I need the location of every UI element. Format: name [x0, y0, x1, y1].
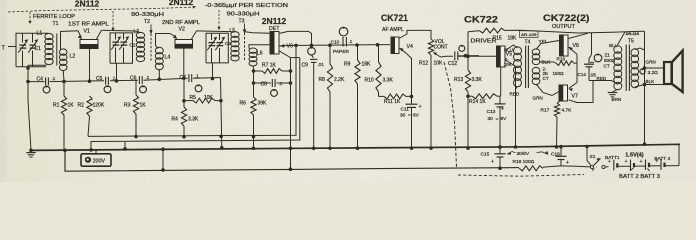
resistor R18: [513, 159, 544, 171]
wire V7 collector: [569, 81, 594, 103]
capacitor C3 trimmer b: [215, 33, 225, 63]
inductor L2: [59, 49, 75, 71]
transformer T4 core: [526, 46, 529, 89]
svg-text:BRN: BRN: [612, 97, 622, 102]
svg-text:BLK: BLK: [646, 79, 656, 84]
svg-text:+: +: [419, 104, 422, 110]
svg-text:R4: R4: [172, 117, 179, 123]
label CK722: [464, 15, 498, 25]
wire R5 right drop: [215, 78, 224, 150]
label 1.5V(4): [625, 153, 643, 159]
capacitor C14: [578, 55, 597, 81]
svg-text:4.7K: 4.7K: [562, 108, 573, 114]
svg-text:FERRITE LOOP: FERRITE LOOP: [33, 14, 75, 20]
svg-text:.05: .05: [590, 72, 597, 77]
wire L1 bottom to C4 line: [26, 65, 46, 84]
svg-text:1K: 1K: [68, 103, 75, 109]
svg-text:.1: .1: [146, 75, 150, 80]
resistor R2: [78, 96, 105, 136]
capacitor C16: [543, 145, 569, 167]
svg-text:90-330μH: 90-330μH: [131, 12, 164, 18]
svg-text:C4: C4: [37, 77, 44, 83]
label AR-109 T4: [520, 31, 539, 46]
wire T2 sec bottom: [158, 69, 162, 81]
wire V7 base: [568, 63, 577, 91]
label DRIVER: [471, 39, 498, 45]
resistor R6: [240, 97, 268, 150]
label 2N112 V2: [169, 0, 194, 7]
mechanical link dashed: [444, 62, 597, 176]
transistor V7: [559, 85, 568, 101]
wire V3 emitter top: [279, 31, 312, 45]
transformer T5 primary: [614, 46, 622, 90]
wire output top rail: [505, 30, 645, 33]
wire C16 to switch: [561, 166, 590, 167]
svg-text:R5: R5: [190, 95, 197, 101]
svg-text:90-330μH: 90-330μH: [227, 12, 260, 18]
svg-text:L3: L3: [134, 29, 140, 35]
transformer T2 core: [149, 25, 152, 63]
wire V6 base: [568, 47, 577, 64]
svg-text:+: +: [625, 159, 628, 165]
svg-text:GRN: GRN: [533, 96, 543, 101]
wire V5 collector: [505, 45, 518, 51]
label YEL: [539, 39, 548, 45]
svg-text:V3: V3: [287, 43, 293, 49]
wire V2 collector to T3: [197, 31, 236, 32]
svg-text:R11 1K: R11 1K: [384, 99, 401, 105]
wire x163 drop: [161, 147, 165, 171]
svg-text:V6: V6: [573, 43, 579, 49]
wire detector audio line: [289, 43, 391, 47]
svg-text:V2: V2: [179, 27, 185, 33]
node C5 test point: [104, 85, 111, 92]
label VOL CONT: [434, 39, 448, 50]
label V3: [287, 43, 293, 49]
svg-text:+: +: [640, 159, 643, 165]
label OUTPUT: [552, 24, 575, 30]
label 2N112 V3: [262, 17, 287, 26]
capacitor C5: [96, 76, 116, 85]
wire V5 to T4 bottom: [505, 60, 517, 149]
svg-text:3.3K: 3.3K: [383, 77, 394, 83]
label 2ND RF AMPL: [162, 20, 200, 26]
svg-text:30: 30: [488, 116, 494, 122]
transformer T1 core: [56, 34, 58, 66]
label 90-330uH T3: [227, 12, 260, 18]
wire V1 collector to T2: [102, 30, 141, 33]
capacitor C2 trimmer a: [111, 33, 121, 83]
battery BATT4 cell: [655, 159, 664, 170]
wire left vertical: [28, 65, 31, 150]
inductor L3: [134, 29, 145, 62]
label DET: [269, 26, 280, 32]
label tuning gang leader: [8, 3, 289, 12]
wire main bus: [31, 144, 680, 150]
svg-text:-0·365μμf PER SECTION: -0·365μμf PER SECTION: [205, 3, 289, 9]
resistor R16: [553, 57, 578, 76]
svg-text:T2: T2: [144, 19, 150, 25]
wire RED primary bottom: [589, 81, 618, 85]
svg-text:10K: 10K: [434, 61, 444, 67]
svg-text:.1: .1: [349, 39, 353, 44]
capacitor C8: [254, 79, 293, 87]
resistor R13: [454, 32, 482, 150]
wire gang arrow C2: [111, 11, 114, 31]
svg-text:R7 1K: R7 1K: [262, 63, 277, 69]
svg-text:R10: R10: [365, 77, 374, 83]
svg-text:CT: CT: [543, 76, 549, 81]
svg-text:AR-119: AR-119: [626, 32, 640, 36]
resistor R3: [124, 80, 146, 138]
label T3: [239, 18, 245, 24]
wire V3 base arrow: [279, 44, 289, 48]
label T2: [144, 19, 150, 25]
svg-text:C10: C10: [331, 39, 340, 45]
capacitor C12: [448, 45, 479, 67]
label CK722(2): [543, 13, 590, 23]
resistor R7: [254, 63, 293, 74]
wire R11 line: [379, 95, 412, 97]
wire battery links: [617, 144, 679, 171]
resistor R1: [53, 81, 74, 149]
svg-text:C11: C11: [401, 106, 410, 112]
svg-text:R2: R2: [78, 103, 85, 109]
label V1: [84, 29, 90, 35]
svg-text:T5: T5: [628, 38, 634, 44]
svg-text:C5: C5: [96, 76, 103, 82]
svg-text:AR-109: AR-109: [521, 33, 537, 37]
svg-text:C8: C8: [261, 81, 268, 87]
svg-text:RED: RED: [510, 92, 520, 97]
transformer T4 primary: [514, 47, 522, 87]
wire C4 bias line: [28, 78, 221, 84]
svg-text:R16: R16: [557, 57, 566, 62]
svg-text:R14 1K: R14 1K: [469, 99, 486, 105]
svg-text:R15: R15: [493, 36, 502, 42]
resistor R14: [466, 94, 501, 105]
wire V6 collector: [569, 33, 589, 38]
wire V2 base: [182, 48, 186, 80]
label C3: [225, 41, 231, 47]
inductor L5: [230, 28, 240, 61]
svg-text:3.2Ω: 3.2Ω: [648, 70, 659, 76]
svg-text:R6: R6: [240, 101, 247, 107]
ground T5: [608, 89, 618, 97]
wire T4 sec top YEL: [536, 41, 560, 50]
svg-text:+: +: [501, 106, 504, 112]
wire T3 sec top to V3: [245, 32, 270, 49]
capacitor C10 paper: [331, 27, 353, 55]
svg-text:+: +: [655, 159, 658, 165]
svg-text:C2: C2: [129, 42, 135, 48]
svg-text:120K: 120K: [93, 103, 105, 109]
label 90-330uH T2: [131, 12, 164, 18]
resistor R15: [468, 28, 517, 41]
svg-text:T: T: [2, 46, 6, 52]
svg-text:1.5V(4): 1.5V(4): [625, 153, 643, 159]
label speaker wires: [640, 60, 658, 84]
svg-text:18K: 18K: [362, 62, 372, 68]
capacitor C2 trimmer b: [119, 33, 129, 63]
label 30/6V: [507, 151, 549, 157]
wire V3 collector drop: [279, 51, 300, 171]
transformer T3 core: [243, 24, 246, 62]
resistor R5: [184, 95, 215, 103]
transistor V2: [173, 31, 197, 48]
node C8 test point: [271, 89, 278, 96]
label V5: [506, 51, 512, 57]
svg-text:39K: 39K: [258, 101, 268, 107]
meter 200V box: [81, 150, 111, 166]
label C1: [35, 46, 42, 52]
svg-text:GRN: GRN: [646, 60, 656, 65]
svg-text:1K: 1K: [140, 103, 147, 109]
wire T2 sec top: [156, 34, 177, 49]
svg-text:R18 100Ω: R18 100Ω: [513, 159, 535, 165]
capacitor C13: [487, 96, 508, 149]
svg-text:150Ω: 150Ω: [553, 71, 565, 76]
transistor V5: [497, 46, 506, 67]
svg-text:V4: V4: [407, 44, 413, 50]
svg-text:R13: R13: [454, 77, 463, 83]
svg-text:L5: L5: [230, 28, 236, 34]
svg-text:3.3K: 3.3K: [188, 117, 199, 123]
svg-text:RED: RED: [597, 76, 607, 81]
label T1: [53, 21, 59, 27]
label BATT2 BATT3: [619, 174, 660, 180]
capacitor C9: [302, 59, 325, 150]
svg-text:T4: T4: [525, 40, 531, 46]
svg-text:CK722(2): CK722(2): [543, 13, 590, 23]
svg-text:C1: C1: [35, 46, 42, 52]
wire switch to battery: [585, 145, 608, 167]
svg-text:=: =: [408, 114, 411, 119]
capacitor C4: [37, 76, 56, 85]
wire bias line B: [89, 58, 300, 152]
label 1ST RF AMPL: [68, 22, 109, 28]
svg-text:2N112: 2N112: [75, 0, 100, 9]
wire V5 emitter: [500, 67, 502, 96]
node C9 test point: [308, 47, 316, 58]
svg-text:2ND RF AMPL: 2ND RF AMPL: [162, 20, 200, 26]
label V7: [572, 93, 578, 99]
svg-text:YEL: YEL: [539, 39, 548, 45]
label BATT1: [605, 155, 620, 161]
svg-text:R9: R9: [344, 62, 351, 68]
svg-text:BATT 2 BATT 3: BATT 2 BATT 3: [619, 174, 660, 180]
svg-text:.01: .01: [318, 62, 325, 67]
node C7 test point: [195, 84, 202, 91]
svg-text:R17: R17: [541, 108, 550, 114]
svg-text:6V: 6V: [413, 113, 420, 119]
wire C3 box: [206, 33, 228, 63]
svg-text:R3: R3: [124, 103, 131, 109]
wire V4 emitter down: [406, 53, 413, 98]
svg-text:.1: .1: [279, 81, 283, 86]
svg-text:R1: R1: [53, 103, 60, 109]
svg-text:T1: T1: [53, 21, 59, 27]
inductor L6: [249, 48, 263, 66]
label T4 primary wires: [504, 47, 520, 96]
label BRN: [612, 97, 622, 102]
svg-text:C12: C12: [448, 61, 457, 67]
svg-text:=: =: [496, 117, 499, 122]
transistor V6: [560, 35, 569, 56]
label V6: [573, 43, 579, 49]
svg-text:R12: R12: [419, 61, 428, 67]
svg-text:18K: 18K: [508, 36, 518, 42]
transistor V4: [391, 37, 399, 54]
svg-text:.1: .1: [195, 73, 199, 78]
capacitor C3 trimmer a: [207, 33, 217, 80]
wire T5 sec to speaker: [635, 31, 664, 146]
svg-text:V7: V7: [572, 93, 578, 99]
svg-text:C16: C16: [551, 151, 560, 157]
wire T4 CT: [540, 62, 556, 63]
svg-text:OUTPUT: OUTPUT: [552, 24, 575, 30]
node antenna terminal: [2, 46, 17, 52]
transformer T4 secondary: [532, 49, 540, 85]
svg-text:CK721: CK721: [381, 13, 408, 23]
svg-text:S1: S1: [590, 154, 596, 160]
inductor L1: [37, 31, 54, 65]
svg-text:R8: R8: [319, 77, 326, 83]
ground main: [26, 149, 36, 158]
svg-text:L2: L2: [70, 54, 76, 60]
capacitor C7: [180, 73, 200, 82]
resistor R4: [172, 78, 199, 138]
label BLU T5: [609, 43, 618, 48]
battery BATT2 cell: [625, 159, 635, 170]
svg-text:3.3K: 3.3K: [472, 77, 483, 83]
node C4 test point: [43, 86, 50, 93]
svg-text:2.2K: 2.2K: [334, 77, 345, 83]
svg-text:DET: DET: [269, 26, 280, 32]
wire driver base: [458, 55, 497, 57]
svg-text:V1: V1: [84, 29, 90, 35]
svg-text:+: +: [608, 159, 611, 165]
svg-text:30/6V: 30/6V: [517, 151, 530, 157]
svg-text:L6: L6: [257, 51, 263, 57]
resistor R10: [365, 45, 394, 97]
wire L2 top to V1 emitter: [61, 31, 82, 82]
capacitor C11: [400, 96, 422, 150]
svg-text:200V: 200V: [93, 158, 106, 164]
svg-text:C3: C3: [225, 41, 231, 47]
svg-text:6V: 6V: [501, 116, 508, 122]
svg-text:BLU: BLU: [504, 47, 513, 52]
capacitor C6: [130, 75, 150, 84]
wire T3 sec bottom: [252, 66, 256, 98]
node Z1 jack: [590, 33, 616, 69]
label RED T5: [597, 76, 607, 81]
svg-text:1ST RF AMPL: 1ST RF AMPL: [68, 22, 109, 28]
svg-text:PAPER: PAPER: [333, 49, 349, 55]
svg-text:10K: 10K: [504, 62, 513, 67]
svg-text:.1: .1: [52, 76, 56, 81]
svg-text:+: +: [566, 160, 569, 166]
label AR-119 T5: [626, 32, 640, 44]
svg-text:AF AMPL: AF AMPL: [382, 27, 404, 33]
svg-text:10K: 10K: [204, 95, 214, 101]
wire volume wiper: [441, 55, 454, 58]
switch S1: [590, 154, 606, 169]
battery BATT3 cell: [640, 159, 650, 170]
transformer T5 secondary: [631, 49, 639, 88]
transistor V3: [270, 32, 279, 55]
label 2N112 V1: [75, 0, 100, 9]
svg-text:C7: C7: [180, 75, 187, 81]
capacitor trimmer section a: [18, 33, 28, 67]
transformer T5 core: [626, 45, 629, 92]
wire bias line A: [88, 44, 298, 139]
label FERRITE LOOP: [33, 14, 75, 20]
svg-text:CK722: CK722: [464, 15, 498, 25]
wire gang arrow C1: [28, 12, 31, 24]
inductor L4: [155, 47, 170, 69]
label BATT4: [654, 156, 670, 162]
wire gang arrow C3: [217, 10, 220, 30]
wire C2 box: [110, 33, 133, 63]
resistor R11: [384, 94, 406, 105]
wire V4 collector up: [399, 30, 431, 39]
capacitor C15: [481, 145, 506, 170]
potentiometer R12: [419, 39, 443, 150]
node C6 test point: [140, 85, 147, 92]
capacitor C1 tuning: [28, 33, 38, 67]
label V2: [179, 27, 185, 33]
wire antenna box: [16, 33, 48, 67]
svg-text:+: +: [491, 159, 494, 165]
resistor R17: [541, 101, 573, 149]
svg-text:C14: C14: [578, 72, 587, 77]
svg-text:T3: T3: [239, 18, 245, 24]
battery BATT1 cell: [608, 159, 618, 170]
label CK721: [381, 13, 408, 23]
label T4 secondary wires: [533, 59, 552, 100]
svg-text:L1: L1: [37, 31, 43, 37]
svg-text:C13: C13: [487, 109, 496, 115]
label C2: [129, 42, 135, 48]
bus junction dots: [123, 147, 127, 151]
svg-text:2N112: 2N112: [169, 0, 194, 7]
svg-text:CT: CT: [604, 64, 610, 69]
label V4: [407, 44, 413, 50]
wire T5 primary top: [618, 32, 625, 45]
wire lower rail left: [63, 149, 519, 172]
speaker LS1: [664, 51, 683, 92]
wire T4 sec bottom GRN: [536, 84, 559, 96]
resistor R8: [319, 45, 345, 150]
wire V4 emitter arrow: [399, 48, 406, 54]
svg-text:30: 30: [400, 113, 406, 119]
svg-text:2N112: 2N112: [262, 17, 287, 26]
resistor R9: [344, 45, 371, 150]
svg-text:C9: C9: [302, 62, 309, 68]
svg-text:L4: L4: [165, 54, 171, 60]
svg-text:Z1: Z1: [605, 52, 611, 57]
wire V1 base: [88, 48, 92, 83]
svg-text:C15: C15: [481, 152, 490, 158]
transistor V1: [78, 30, 102, 48]
label AF AMPL: [382, 27, 404, 33]
svg-text:CONT: CONT: [434, 44, 448, 50]
